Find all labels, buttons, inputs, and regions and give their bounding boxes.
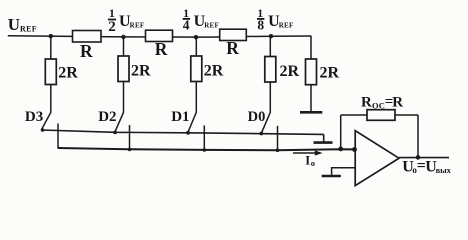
wire rail end to terminator	[310, 36, 312, 60]
svg-text:R: R	[392, 95, 403, 111]
ground non-inverting input	[322, 175, 341, 177]
svg-text:2R: 2R	[320, 65, 340, 82]
wire branch 3 upper	[195, 37, 197, 57]
op-amp U1 triangle	[355, 131, 399, 186]
resistor 2R branch 1	[45, 59, 56, 85]
resistor R2 (series)	[146, 30, 173, 41]
wire branch 1 lower	[50, 85, 52, 113]
label Roc=R	[361, 94, 403, 110]
node dot C (1/4 UREF)	[194, 35, 198, 39]
current Io arrow	[293, 150, 323, 155]
svg-text:REF: REF	[130, 22, 145, 30]
node dot inverting input	[352, 147, 357, 152]
svg-text:OC: OC	[372, 100, 385, 110]
svg-text:4: 4	[183, 17, 190, 32]
wire branch 1 upper	[50, 36, 52, 60]
node dot D (1/8 UREF)	[269, 34, 273, 38]
wire branch 4 lower	[269, 82, 271, 113]
node dot D0 on upper bus	[259, 132, 263, 136]
wire feedback top rail	[341, 114, 418, 116]
resistor R3 (series)	[220, 29, 247, 40]
svg-text:вых: вых	[436, 166, 452, 175]
svg-text:D1: D1	[171, 109, 189, 125]
svg-text:D3: D3	[25, 109, 43, 125]
label node C 1/4 UREF	[183, 8, 219, 32]
label output Uo=Uvyh	[402, 158, 451, 176]
wire lower bus (output current bus)	[58, 148, 355, 150]
wire top rail	[8, 36, 311, 37]
node dot D2 on upper bus	[113, 131, 117, 135]
switch D2 arm	[115, 112, 124, 132]
resistor 2R branch 2	[118, 56, 129, 82]
svg-text:REF: REF	[20, 25, 37, 34]
wire terminator lower	[310, 85, 312, 112]
node dot tick D1 on lower bus	[203, 148, 207, 152]
svg-text:8: 8	[257, 18, 264, 33]
svg-text:REF: REF	[204, 22, 219, 30]
wire feedback left vertical	[340, 115, 342, 149]
svg-text:D0: D0	[248, 109, 266, 125]
wire branch 4 upper	[269, 36, 271, 57]
node dot output	[416, 155, 421, 160]
resistor 2R terminator	[306, 59, 317, 85]
switch D2 contact tick	[129, 125, 131, 149]
wire branch 3 lower	[195, 82, 197, 113]
node dot B (1/2 UREF)	[121, 35, 125, 39]
svg-text:R: R	[80, 41, 93, 61]
wire upper bus (ground bus)	[41, 130, 323, 134]
svg-text:R: R	[226, 38, 239, 58]
label node D 1/8 UREF	[257, 8, 294, 33]
svg-text:R: R	[361, 95, 372, 111]
wire non-inverting input	[332, 168, 356, 175]
switch D3 arm	[41, 112, 51, 130]
node dot D1 on upper bus	[186, 131, 190, 135]
node dot feedback junction on lower bus	[338, 147, 343, 152]
resistor 2R branch 3	[191, 56, 202, 82]
switch D0 contact tick	[277, 126, 279, 151]
svg-text:o: o	[311, 158, 315, 168]
switch D0 arm	[261, 112, 270, 133]
wire feedback right vertical	[417, 115, 419, 158]
svg-text:I: I	[305, 153, 310, 167]
ground upper bus	[314, 141, 333, 144]
wire output	[399, 157, 449, 159]
label node B 1/2 UREF	[108, 8, 145, 35]
wire branch 2 upper	[123, 37, 125, 57]
resistor Roc feedback	[367, 110, 395, 121]
resistor 2R branch 4	[265, 57, 276, 83]
wire branch 2 lower	[123, 82, 125, 113]
wire upper bus ground stub	[323, 134, 325, 141]
svg-text:2R: 2R	[280, 63, 300, 80]
svg-text:R: R	[155, 39, 168, 59]
svg-text:REF: REF	[279, 22, 294, 30]
switch D1 arm	[188, 112, 197, 132]
node dot tick D0 on lower bus	[276, 149, 280, 153]
svg-text:2R: 2R	[131, 62, 151, 79]
svg-text:U: U	[8, 15, 20, 34]
switch D1 contact tick	[203, 125, 205, 150]
svg-text:2R: 2R	[58, 65, 78, 82]
node dot A (UREF rail)	[49, 34, 53, 38]
switch D3 contact tick	[57, 124, 59, 149]
svg-text:D2: D2	[98, 109, 116, 125]
node dot tick D2 on lower bus	[128, 148, 132, 152]
node dot D3 on upper bus	[41, 128, 45, 132]
resistor R1 (series)	[73, 31, 102, 43]
svg-text:2: 2	[108, 19, 116, 35]
svg-text:2R: 2R	[204, 62, 224, 79]
ground terminator	[300, 111, 322, 114]
